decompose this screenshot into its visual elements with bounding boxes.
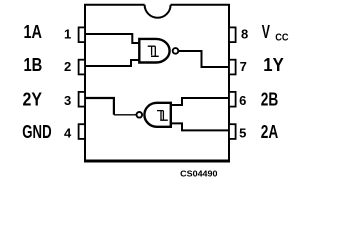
- svg-text:6: 6: [239, 93, 246, 108]
- svg-text:3: 3: [64, 93, 71, 108]
- svg-text:CS04490: CS04490: [180, 168, 218, 178]
- svg-text:7: 7: [240, 59, 247, 74]
- svg-text:8: 8: [241, 27, 248, 42]
- svg-text:2B: 2B: [261, 89, 279, 109]
- svg-text:2A: 2A: [261, 122, 279, 142]
- svg-text:1Y: 1Y: [263, 55, 284, 75]
- svg-text:1A: 1A: [24, 22, 43, 42]
- svg-text:2: 2: [64, 59, 71, 74]
- svg-text:GND: GND: [22, 122, 51, 142]
- svg-text:CC: CC: [275, 32, 288, 43]
- svg-text:5: 5: [239, 126, 246, 141]
- svg-text:1B: 1B: [24, 55, 43, 75]
- svg-text:4: 4: [64, 126, 72, 141]
- svg-text:1: 1: [64, 27, 71, 42]
- svg-text:V: V: [262, 22, 270, 42]
- svg-text:2Y: 2Y: [23, 89, 43, 109]
